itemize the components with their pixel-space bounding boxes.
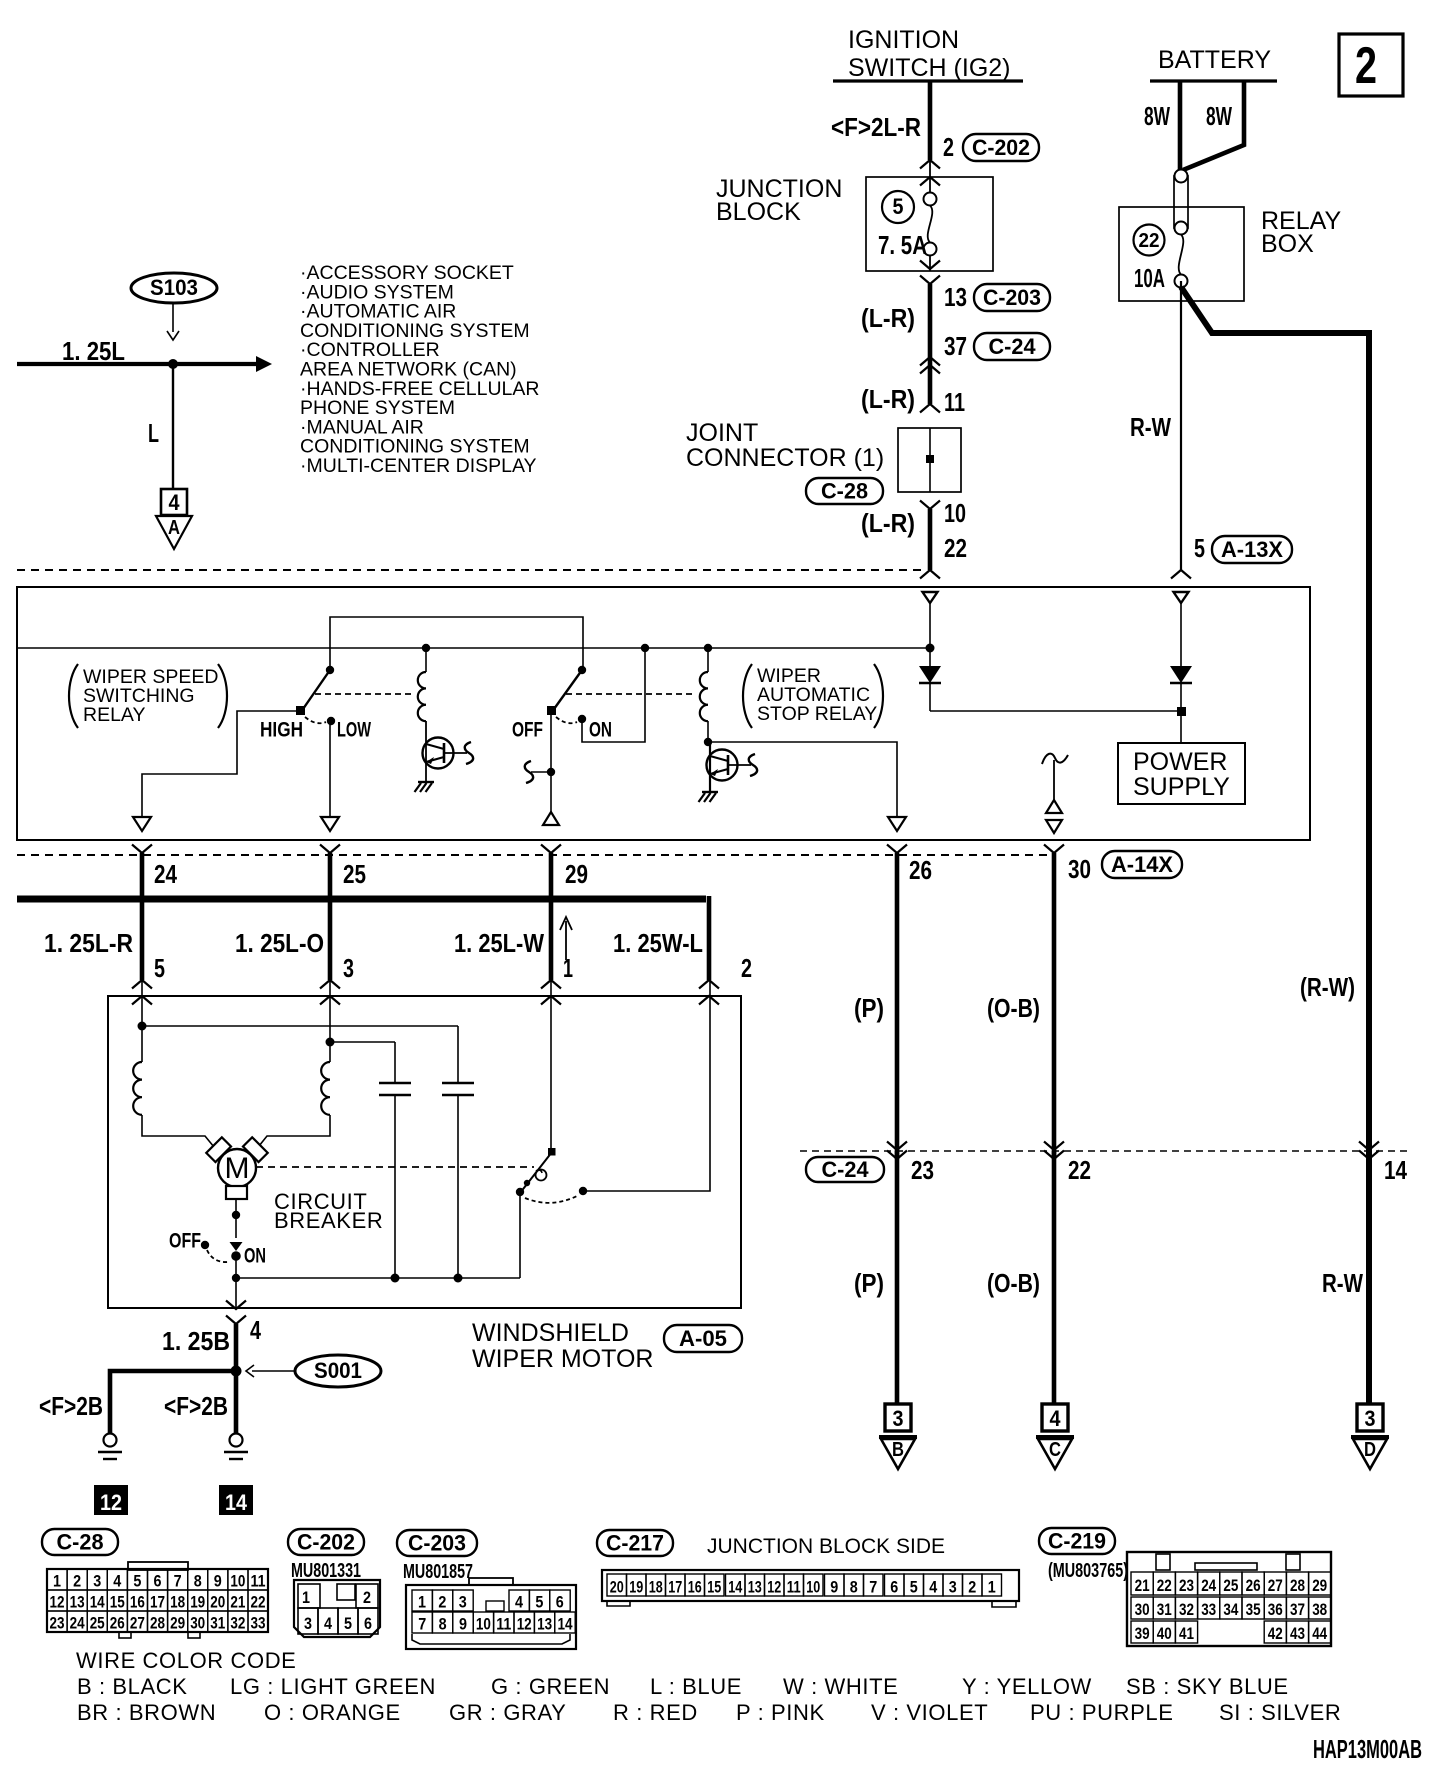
wire R-W heavy vertical bbox=[1366, 330, 1372, 1404]
switch SW2 wiper on-off bbox=[578, 666, 586, 674]
node capacitor C2 bottom bbox=[454, 1274, 463, 1283]
connector C-219 pinout drawing bbox=[1127, 1552, 1331, 1646]
svg-text:22: 22 bbox=[1157, 1576, 1172, 1595]
svg-text:17: 17 bbox=[668, 1578, 682, 1597]
svg-text:(L-R): (L-R) bbox=[861, 384, 915, 414]
svg-text:25: 25 bbox=[90, 1614, 105, 1633]
svg-text:16: 16 bbox=[688, 1578, 702, 1597]
svg-text:LG : LIGHT GREEN: LG : LIGHT GREEN bbox=[230, 1674, 436, 1699]
wire ON to bus bbox=[582, 648, 645, 742]
connector A-05 inline label bbox=[664, 1325, 742, 1352]
wire HIGH to pin 24 bbox=[142, 711, 300, 817]
svg-text:15: 15 bbox=[707, 1578, 721, 1597]
wire diode join bbox=[930, 710, 1181, 712]
svg-text:32: 32 bbox=[230, 1614, 245, 1633]
wire park contact down bbox=[519, 1193, 521, 1278]
svg-text:11: 11 bbox=[787, 1578, 801, 1597]
svg-text:A-13X: A-13X bbox=[1221, 537, 1283, 562]
node motor output bbox=[232, 1211, 240, 1219]
svg-text:1. 25L-O: 1. 25L-O bbox=[235, 928, 324, 958]
svg-text:3: 3 bbox=[304, 1614, 312, 1633]
svg-text:G : GREEN: G : GREEN bbox=[491, 1674, 610, 1699]
windshield wiper motor box A-05 bbox=[108, 996, 741, 1308]
svg-text:26: 26 bbox=[110, 1614, 125, 1633]
chevrons C-24 crossing O-B wire bbox=[1044, 1142, 1064, 1151]
node LOW contact bbox=[327, 717, 335, 725]
splice S103 label ellipse bbox=[131, 273, 217, 303]
chevrons motor pin entry x551 bbox=[541, 980, 561, 989]
svg-text:1: 1 bbox=[563, 953, 573, 983]
switch SW1 throw dashed arc bbox=[305, 717, 326, 723]
chevrons motor pin entry x330 bbox=[320, 980, 340, 989]
connector C-24 inline label 2 bbox=[806, 1157, 884, 1182]
svg-text:BOX: BOX bbox=[1261, 230, 1314, 258]
capacitor C2 bbox=[457, 1026, 459, 1083]
svg-text:12: 12 bbox=[517, 1615, 532, 1634]
wire K2 to pin 26 bbox=[708, 742, 897, 817]
svg-text:23: 23 bbox=[911, 1155, 934, 1185]
svg-text:14: 14 bbox=[90, 1593, 105, 1612]
off-page triangle A bbox=[156, 516, 192, 549]
wire pin 30 drop bbox=[1052, 853, 1057, 1159]
svg-text:1. 25L: 1. 25L bbox=[62, 336, 125, 366]
svg-text:PU : PURPLE: PU : PURPLE bbox=[1030, 1700, 1174, 1725]
wire ground branch left bbox=[110, 1371, 236, 1433]
svg-text:4: 4 bbox=[1050, 1406, 1062, 1431]
wire alternate contact to pin 2 bbox=[583, 980, 710, 1191]
svg-text:9: 9 bbox=[459, 1615, 467, 1634]
svg-text:L : BLUE: L : BLUE bbox=[650, 1674, 742, 1699]
svg-text:BLOCK: BLOCK bbox=[716, 198, 801, 226]
wire pin 25 drop bbox=[328, 853, 333, 980]
svg-text:BR : BROWN: BR : BROWN bbox=[77, 1700, 216, 1725]
diode D2 bbox=[1180, 603, 1182, 666]
svg-text:29: 29 bbox=[170, 1614, 185, 1633]
svg-text:39: 39 bbox=[1135, 1624, 1150, 1643]
svg-text:(O-B): (O-B) bbox=[987, 1268, 1040, 1298]
svg-text:ON: ON bbox=[589, 719, 612, 742]
svg-text:11: 11 bbox=[496, 1615, 511, 1634]
svg-text:(L-R): (L-R) bbox=[861, 508, 915, 538]
svg-text:12: 12 bbox=[767, 1578, 781, 1597]
triangle OFF wire end bbox=[543, 812, 559, 825]
svg-text:22: 22 bbox=[251, 1593, 266, 1612]
svg-text:27: 27 bbox=[1268, 1576, 1283, 1595]
wire LOW to pin 25 bbox=[329, 721, 331, 817]
svg-text:W : WHITE: W : WHITE bbox=[783, 1674, 898, 1699]
svg-text:34: 34 bbox=[1223, 1600, 1238, 1619]
fuse 7.5A in junction block bbox=[929, 176, 931, 193]
svg-text:O : ORANGE: O : ORANGE bbox=[264, 1700, 401, 1725]
svg-text:(R-W): (R-W) bbox=[1300, 972, 1355, 1002]
harness boundary dashed line lower bbox=[17, 854, 1054, 856]
arrow S001 to splice bbox=[252, 1370, 294, 1372]
svg-text:13: 13 bbox=[944, 282, 967, 312]
chevrons motor pin entry x709 bbox=[699, 980, 719, 989]
svg-text:BATTERY: BATTERY bbox=[1158, 46, 1271, 74]
terminal box 3 D bbox=[1357, 1404, 1383, 1431]
chevron pin crossing x142 bbox=[132, 845, 152, 854]
battery wire right 8W bbox=[1183, 81, 1244, 170]
svg-text:41: 41 bbox=[1179, 1624, 1194, 1643]
svg-text:44: 44 bbox=[1312, 1624, 1327, 1643]
svg-text:HAP13M00AB: HAP13M00AB bbox=[1313, 1734, 1422, 1764]
svg-text:13: 13 bbox=[70, 1593, 85, 1612]
wire pin 29 drop bbox=[549, 853, 554, 980]
svg-text:8: 8 bbox=[439, 1615, 447, 1634]
svg-text:R-W: R-W bbox=[1130, 412, 1171, 442]
svg-text:9: 9 bbox=[830, 1578, 838, 1597]
arrow HIGH wire end bbox=[133, 817, 151, 831]
chevrons C-24 crossing P wire bbox=[887, 1142, 907, 1151]
svg-text:5: 5 bbox=[133, 1572, 141, 1591]
internal bus wire bbox=[17, 647, 930, 649]
ground ref 12 box bbox=[94, 1485, 128, 1515]
field coil L2 bbox=[329, 1042, 331, 1062]
svg-text:20: 20 bbox=[210, 1593, 225, 1612]
svg-text:IGNITION: IGNITION bbox=[848, 26, 959, 54]
svg-text:38: 38 bbox=[1312, 1600, 1327, 1619]
node ON contact bbox=[578, 715, 586, 723]
svg-text:SWITCH (IG2): SWITCH (IG2) bbox=[848, 54, 1011, 82]
svg-text:6: 6 bbox=[364, 1614, 372, 1633]
svg-text:1. 25L-W: 1. 25L-W bbox=[454, 928, 544, 958]
svg-text:29: 29 bbox=[1312, 1576, 1327, 1595]
svg-text:12: 12 bbox=[100, 1490, 122, 1515]
relay coil supply loop wire bbox=[330, 617, 583, 670]
svg-text:1. 25W-L: 1. 25W-L bbox=[613, 928, 703, 958]
svg-text:(P): (P) bbox=[854, 993, 884, 1023]
svg-text:4: 4 bbox=[113, 1572, 121, 1591]
svg-text:28: 28 bbox=[150, 1614, 165, 1633]
svg-text:STOP RELAY: STOP RELAY bbox=[757, 703, 877, 725]
node K2 bottom junction bbox=[704, 738, 712, 746]
connector C-203 pinout drawing bbox=[406, 1585, 576, 1649]
svg-text:(MU803765): (MU803765) bbox=[1048, 1560, 1128, 1582]
chevron pin crossing x897 bbox=[887, 845, 907, 854]
svg-text:3: 3 bbox=[893, 1406, 904, 1431]
node S103 junction bbox=[168, 359, 178, 369]
svg-text:1. 25B: 1. 25B bbox=[162, 1326, 230, 1356]
park switch throw dashed arc bbox=[525, 1195, 579, 1203]
dashed cam link motor to park switch bbox=[256, 1166, 534, 1168]
connector C-28 pinout drawing bbox=[47, 1569, 268, 1632]
svg-text:12: 12 bbox=[50, 1593, 65, 1612]
svg-text:31: 31 bbox=[1157, 1600, 1172, 1619]
harness dashed line at C-24 bbox=[800, 1150, 1412, 1152]
field coil L1 bbox=[141, 1026, 143, 1062]
svg-text:C-24: C-24 bbox=[822, 1157, 870, 1182]
svg-text:C-203: C-203 bbox=[408, 1531, 466, 1556]
svg-text:HIGH: HIGH bbox=[260, 719, 303, 742]
relay box outline bbox=[1119, 207, 1244, 301]
svg-text:22: 22 bbox=[1139, 230, 1160, 252]
svg-text:GR : GRAY: GR : GRAY bbox=[449, 1700, 566, 1725]
svg-text:M: M bbox=[225, 1152, 250, 1185]
svg-text:<F>2B: <F>2B bbox=[39, 1391, 103, 1421]
svg-text:R-W: R-W bbox=[1322, 1268, 1363, 1298]
off-page triangle B bbox=[879, 1435, 917, 1439]
joint connector box bbox=[898, 428, 961, 492]
break squiggle on OFF branch bbox=[525, 761, 533, 783]
svg-text:1: 1 bbox=[418, 1593, 426, 1612]
wire P lower bbox=[895, 1151, 900, 1404]
fuse number circle 5 bbox=[882, 191, 914, 223]
svg-text:42: 42 bbox=[1268, 1624, 1283, 1643]
svg-text:14: 14 bbox=[1384, 1155, 1407, 1185]
svg-text:C-219: C-219 bbox=[1048, 1529, 1106, 1554]
svg-text:30: 30 bbox=[190, 1614, 205, 1633]
svg-text:24: 24 bbox=[1201, 1576, 1216, 1595]
svg-text:5: 5 bbox=[910, 1578, 918, 1597]
wire ignition feed inside relay bbox=[929, 603, 931, 648]
svg-text:10: 10 bbox=[476, 1615, 491, 1634]
svg-text:13: 13 bbox=[537, 1615, 552, 1634]
svg-text:S103: S103 bbox=[150, 275, 198, 300]
transistor Q2 bbox=[707, 750, 738, 781]
direction arrow up bbox=[565, 921, 567, 960]
svg-text:JOINT: JOINT bbox=[686, 419, 758, 447]
node capacitor C1 bottom bbox=[391, 1274, 400, 1283]
svg-text:15: 15 bbox=[110, 1593, 125, 1612]
svg-text:4: 4 bbox=[929, 1578, 937, 1597]
chevron pin crossing x551 bbox=[541, 845, 561, 854]
svg-text:28: 28 bbox=[1290, 1576, 1305, 1595]
svg-text:40: 40 bbox=[1157, 1624, 1172, 1643]
splice S001 label ellipse bbox=[295, 1355, 381, 1387]
svg-text:OFF: OFF bbox=[169, 1230, 201, 1253]
svg-text:C-203: C-203 bbox=[983, 285, 1041, 310]
svg-text:C-28: C-28 bbox=[57, 1530, 104, 1555]
svg-text:3: 3 bbox=[93, 1572, 101, 1591]
svg-text:6: 6 bbox=[890, 1578, 898, 1597]
svg-text:14: 14 bbox=[728, 1578, 742, 1597]
svg-text:3: 3 bbox=[1365, 1406, 1376, 1431]
connector pin triangle ignition entry bbox=[923, 592, 938, 603]
wire O-B lower bbox=[1052, 1151, 1057, 1404]
svg-text:C-217: C-217 bbox=[606, 1531, 664, 1556]
svg-text:(L-R): (L-R) bbox=[861, 303, 915, 333]
svg-text:7: 7 bbox=[869, 1578, 877, 1597]
node breaker bottom junction bbox=[232, 1274, 240, 1282]
wire node5 to capacitor C2 bbox=[142, 1025, 458, 1027]
svg-text:24: 24 bbox=[154, 859, 177, 889]
spare pin pigtail 30 bbox=[1042, 754, 1068, 764]
ground right bbox=[230, 1434, 243, 1447]
svg-text:A: A bbox=[168, 517, 180, 539]
relay coil K2 bbox=[704, 644, 712, 652]
ground Q1 bbox=[418, 781, 434, 783]
svg-text:13: 13 bbox=[748, 1578, 762, 1597]
capacitor C1 bbox=[394, 1042, 396, 1083]
arrow from S103 to splice node bbox=[172, 303, 174, 332]
arrow LOW wire end bbox=[321, 817, 339, 831]
connector C-202 pinout drawing bbox=[294, 1580, 380, 1637]
connector A-14X inline label bbox=[1102, 851, 1182, 878]
svg-text:C-202: C-202 bbox=[297, 1530, 355, 1555]
svg-text:OFF: OFF bbox=[512, 719, 543, 742]
svg-text:C: C bbox=[1049, 1439, 1061, 1461]
svg-text:18: 18 bbox=[170, 1593, 185, 1612]
wire node3 to capacitor C1 bbox=[330, 1041, 395, 1043]
svg-text:27: 27 bbox=[130, 1614, 145, 1633]
svg-text:MU801857: MU801857 bbox=[403, 1561, 473, 1583]
svg-text:·MULTI-CENTER DISPLAY: ·MULTI-CENTER DISPLAY bbox=[300, 455, 537, 477]
WIPER AUTOMATIC STOP RELAY label bbox=[743, 664, 752, 728]
svg-text:1: 1 bbox=[988, 1578, 996, 1597]
svg-text:14: 14 bbox=[558, 1615, 573, 1634]
node ignition-bus junction bbox=[926, 644, 935, 653]
connector C-217 pinout label bbox=[597, 1530, 673, 1556]
svg-text:26: 26 bbox=[909, 855, 932, 885]
svg-text:8W: 8W bbox=[1206, 101, 1232, 131]
chevrons C-24 crossing R-W wire bbox=[1359, 1142, 1379, 1151]
connector C-217 pinout drawing bbox=[602, 1570, 1019, 1601]
ground left bbox=[104, 1434, 117, 1447]
svg-text:8W: 8W bbox=[1144, 101, 1170, 131]
relay coil K1 bbox=[422, 644, 430, 652]
svg-text:BREAKER: BREAKER bbox=[274, 1208, 383, 1233]
svg-text:32: 32 bbox=[1179, 1600, 1194, 1619]
svg-text:31: 31 bbox=[210, 1614, 225, 1633]
svg-text:4: 4 bbox=[169, 490, 181, 515]
dashed link SW2 to coil K2 bbox=[566, 693, 696, 695]
motor M armature bbox=[218, 1149, 256, 1187]
connector C-202 inline label bbox=[963, 134, 1039, 161]
joint connector bus bar square bbox=[926, 455, 934, 463]
svg-text:35: 35 bbox=[1246, 1600, 1261, 1619]
wire R-W thin to A-13X bbox=[1180, 281, 1182, 570]
wire IG2 output bbox=[928, 81, 933, 160]
svg-text:2: 2 bbox=[741, 953, 752, 983]
wire pin 26 drop bbox=[895, 853, 900, 1159]
svg-text:9: 9 bbox=[214, 1572, 222, 1591]
svg-text:1: 1 bbox=[302, 1588, 310, 1607]
harness boundary dashed line upper bbox=[17, 569, 926, 571]
svg-text:POWER: POWER bbox=[1133, 748, 1227, 776]
block POWER SUPPLY bbox=[1118, 743, 1245, 804]
svg-text:20: 20 bbox=[610, 1578, 624, 1597]
chevrons motor pin 4 exit bbox=[226, 1301, 246, 1310]
switch SW1 wiper speed bbox=[326, 666, 334, 674]
node pin3 junction bbox=[326, 1038, 335, 1047]
svg-text:LOW: LOW bbox=[337, 719, 371, 742]
svg-text:A-05: A-05 bbox=[679, 1326, 727, 1351]
svg-text:A-14X: A-14X bbox=[1111, 852, 1173, 877]
svg-text:ON: ON bbox=[244, 1245, 266, 1268]
svg-text:36: 36 bbox=[1268, 1600, 1283, 1619]
svg-text:(P): (P) bbox=[854, 1268, 884, 1298]
svg-text:22: 22 bbox=[1068, 1155, 1091, 1185]
wire OFF to pin 29 bbox=[550, 711, 552, 812]
svg-text:CONNECTOR (1): CONNECTOR (1) bbox=[686, 444, 884, 472]
WIPER SPEED SWITCHING RELAY label bbox=[69, 664, 78, 728]
terminal box 4 bbox=[161, 489, 187, 515]
svg-text:14: 14 bbox=[225, 1490, 248, 1515]
svg-text:25: 25 bbox=[1223, 1576, 1238, 1595]
node OFF contact breaker bbox=[201, 1241, 209, 1249]
svg-text:26: 26 bbox=[1246, 1576, 1261, 1595]
svg-text:33: 33 bbox=[251, 1614, 266, 1633]
node park switch alternate contact bbox=[579, 1187, 587, 1195]
svg-text:21: 21 bbox=[1135, 1576, 1150, 1595]
park switch arm bbox=[520, 1152, 552, 1193]
wire bottom link bbox=[236, 1277, 520, 1279]
connector C-202 pinout label bbox=[288, 1529, 364, 1555]
connector C-203 inline label bbox=[974, 284, 1050, 311]
svg-text:5: 5 bbox=[344, 1614, 352, 1633]
ground ref 14 box bbox=[219, 1485, 253, 1515]
wire 1.25B ground lead bbox=[234, 1324, 239, 1371]
svg-text:<F>2B: <F>2B bbox=[164, 1391, 228, 1421]
off-page triangle C bbox=[1036, 1435, 1074, 1439]
svg-text:MU801331: MU801331 bbox=[291, 1560, 361, 1582]
svg-text:25: 25 bbox=[343, 859, 366, 889]
svg-text:21: 21 bbox=[230, 1593, 245, 1612]
svg-text:Y : YELLOW: Y : YELLOW bbox=[962, 1674, 1092, 1699]
wire ground branch right bbox=[234, 1371, 239, 1433]
transistor Q1 bbox=[423, 738, 454, 769]
svg-text:(O-B): (O-B) bbox=[987, 993, 1040, 1023]
svg-text:30: 30 bbox=[1068, 854, 1091, 884]
svg-text:C-24: C-24 bbox=[989, 334, 1037, 359]
wire pin5 into motor bbox=[141, 980, 143, 1026]
svg-text:4: 4 bbox=[515, 1593, 523, 1612]
node park switch pivot bbox=[548, 1148, 556, 1156]
wire heavy bus to pin 2 bbox=[17, 896, 706, 903]
svg-text:2: 2 bbox=[438, 1593, 446, 1612]
connector C-28 inline label bbox=[806, 478, 883, 504]
wiper relay assembly box bbox=[17, 587, 1310, 840]
svg-text:10: 10 bbox=[806, 1578, 820, 1597]
svg-text:11: 11 bbox=[251, 1572, 266, 1591]
svg-text:10: 10 bbox=[230, 1572, 245, 1591]
svg-text:4: 4 bbox=[324, 1614, 332, 1633]
svg-text:3: 3 bbox=[343, 953, 354, 983]
node S001 splice bbox=[231, 1366, 242, 1377]
svg-text:6: 6 bbox=[154, 1572, 162, 1591]
svg-text:23: 23 bbox=[1179, 1576, 1194, 1595]
svg-text:WIRE COLOR CODE: WIRE COLOR CODE bbox=[76, 1648, 296, 1673]
connector C-203 pinout label bbox=[397, 1530, 477, 1556]
svg-text:19: 19 bbox=[629, 1578, 643, 1597]
page number 2 box bbox=[1339, 34, 1403, 96]
svg-text:18: 18 bbox=[649, 1578, 663, 1597]
circuit breaker contact bbox=[230, 1242, 243, 1251]
svg-text:2: 2 bbox=[968, 1578, 976, 1597]
svg-text:5: 5 bbox=[893, 194, 904, 219]
chevrons at C-24 bbox=[920, 357, 940, 366]
svg-text:RELAY: RELAY bbox=[83, 704, 146, 726]
dashed link SW1 to coil K1 bbox=[315, 693, 414, 695]
chevron entering joint connector bbox=[920, 404, 940, 413]
park switch cam symbol bbox=[536, 1170, 547, 1181]
ground Q2 bbox=[702, 791, 718, 793]
wire L down from splice bbox=[172, 364, 174, 488]
svg-text:1: 1 bbox=[53, 1572, 61, 1591]
connector C-24 inline label bbox=[974, 333, 1050, 360]
svg-text:WINDSHIELD: WINDSHIELD bbox=[472, 1319, 629, 1347]
chevron leaving joint connector bbox=[920, 501, 940, 510]
arrow wire 26 end bbox=[888, 817, 906, 831]
svg-text:S001: S001 bbox=[314, 1358, 362, 1383]
switch SW2 throw dashed arc bbox=[556, 717, 577, 723]
svg-text:7: 7 bbox=[174, 1572, 182, 1591]
connector crossing chevrons at C-202 bbox=[920, 160, 940, 169]
chevron at relay box entry 5 bbox=[1171, 570, 1191, 579]
terminal box 4 C bbox=[1042, 1404, 1068, 1431]
svg-text:23: 23 bbox=[50, 1614, 65, 1633]
